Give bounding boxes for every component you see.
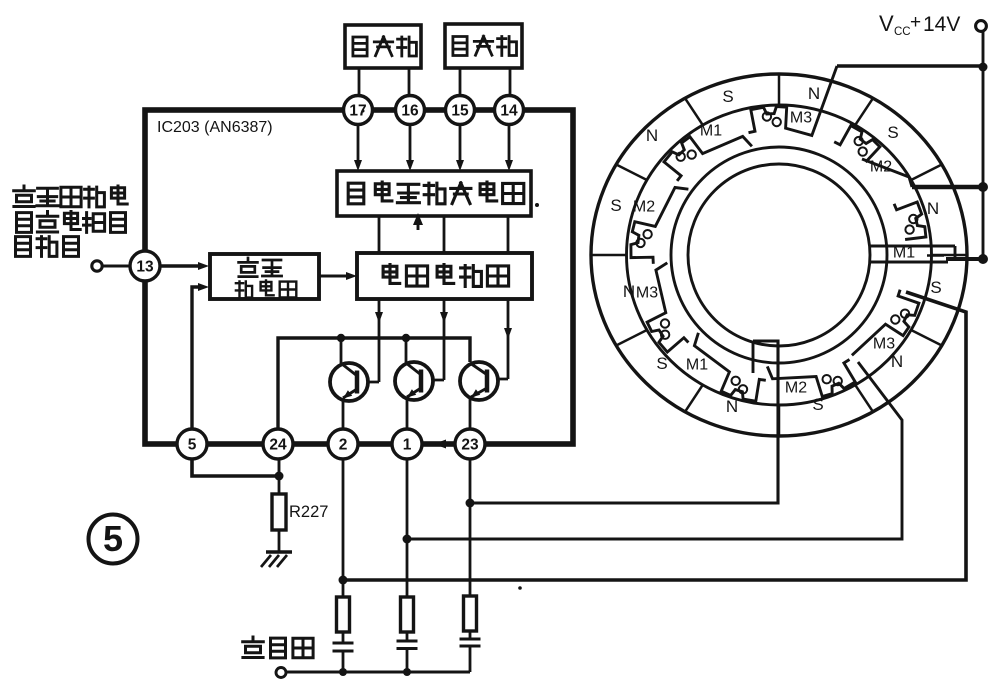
winding M1 xyxy=(739,385,747,393)
junction pin1 rail xyxy=(403,535,412,544)
svg-text:CC: CC xyxy=(894,26,911,38)
svg-text:IC203 (AN6387): IC203 (AN6387) xyxy=(157,119,273,136)
svg-text:S: S xyxy=(930,278,941,297)
junction Q2 collector xyxy=(402,334,410,342)
wire pin5 to R227 node xyxy=(192,459,279,476)
capacitor phase 1 xyxy=(342,632,345,643)
speck xyxy=(362,110,365,113)
resistor phase 3 xyxy=(464,596,477,631)
stator pole M2 at 160 deg xyxy=(631,188,689,264)
arrow on IC bottom edge between pin 1 and 23 xyxy=(434,440,446,449)
svg-text:N: N xyxy=(646,126,658,145)
stator pole M2 at 40 deg xyxy=(834,126,880,163)
wire Q1 emitter to pin 2 xyxy=(342,399,345,429)
wire pin13 to torque controller xyxy=(160,264,199,267)
wire processor to diff-amp 1 xyxy=(378,216,381,253)
rotor magnet boundaries xyxy=(932,254,968,257)
wire terminal to pin13 xyxy=(102,265,131,268)
svg-text:S: S xyxy=(722,87,733,106)
stator pole M3 at 320 deg xyxy=(852,290,919,356)
wire Vcc to M2 coil xyxy=(912,185,983,190)
svg-text:N: N xyxy=(623,282,635,301)
speck xyxy=(518,586,522,590)
drum power terminal xyxy=(276,668,286,678)
wire Q2 emitter to pin 1 xyxy=(406,398,409,429)
svg-text:S: S xyxy=(610,196,621,215)
stator pole M1 at 120 deg xyxy=(664,136,752,181)
stator pole M3 at 200 deg xyxy=(647,263,688,352)
svg-text:M3: M3 xyxy=(873,336,895,353)
wire pin2 column xyxy=(342,459,345,597)
pin 13 xyxy=(130,251,160,281)
winding M1 xyxy=(909,215,917,223)
stator pole M2 at 280 deg xyxy=(767,360,855,397)
capacitor phase 3 xyxy=(469,631,472,640)
stator yoke xyxy=(671,147,887,363)
svg-text:S: S xyxy=(656,354,667,373)
wire Q3 emitter to pin 23 xyxy=(469,398,472,429)
stator pole M3 at 80 deg xyxy=(749,107,814,136)
junction Vcc branch 2 xyxy=(978,182,988,192)
wire pin1 to motor M3 coil xyxy=(407,362,902,539)
resistor phase 2 xyxy=(401,597,414,632)
wire processor to diff-amp 2 xyxy=(443,216,446,253)
svg-text:N: N xyxy=(891,352,903,371)
svg-text:16: 16 xyxy=(401,103,419,120)
block torque controller xyxy=(210,254,319,299)
svg-text:S: S xyxy=(887,123,898,142)
hall sensor block 2 xyxy=(445,24,522,68)
speck xyxy=(535,203,539,207)
transistor Q2 xyxy=(395,362,433,400)
pin 2 xyxy=(328,429,358,459)
motor rotor inner ring xyxy=(627,105,932,405)
svg-text:M2: M2 xyxy=(870,159,892,176)
pin 24 xyxy=(263,429,293,459)
wire torque controller to diff amp xyxy=(319,274,348,277)
wire processor to diff-amp 3 xyxy=(507,216,510,253)
wire pin to position-signal-processor xyxy=(508,125,511,163)
stator pole M1 at 0 deg xyxy=(894,202,926,240)
svg-text:M2: M2 xyxy=(785,380,807,397)
hall sensor block 1 xyxy=(345,25,421,68)
svg-text:5: 5 xyxy=(103,518,123,559)
Vcc terminal xyxy=(976,21,987,32)
svg-text:5: 5 xyxy=(188,437,197,454)
svg-text:24: 24 xyxy=(269,437,287,454)
figure number 5 xyxy=(89,515,138,564)
svg-text:M2: M2 xyxy=(633,199,655,216)
pin 23 xyxy=(455,429,485,459)
svg-text:M3: M3 xyxy=(790,110,812,127)
stator pole M1 at 240 deg xyxy=(694,333,765,401)
bottom pole lead stub xyxy=(752,341,755,373)
wire Vcc to M3 top coil xyxy=(837,64,983,67)
resistor phase 1 xyxy=(337,597,350,632)
svg-text:1: 1 xyxy=(403,437,412,454)
svg-text:N: N xyxy=(808,84,820,103)
svg-text:V: V xyxy=(879,11,894,36)
pin 17 xyxy=(344,96,373,125)
svg-text:N: N xyxy=(726,397,738,416)
wire pin to position-signal-processor xyxy=(459,125,462,163)
wire R227 to ground xyxy=(278,530,281,552)
svg-text:M3: M3 xyxy=(636,285,658,302)
junction pin2 rail xyxy=(339,576,348,585)
winding M3 xyxy=(763,112,771,120)
motor rotor outer ring xyxy=(591,74,967,436)
wire hall2 to pin15 xyxy=(459,68,462,96)
input text drum drive control voltage from servo circuit xyxy=(14,186,35,207)
svg-text:+: + xyxy=(910,12,921,33)
block position signal processor xyxy=(337,171,531,216)
input terminal xyxy=(92,261,102,271)
feedback arrow into processor bottom xyxy=(413,213,423,225)
svg-text:13: 13 xyxy=(136,259,154,276)
winding M2 xyxy=(636,239,644,247)
pin 5 xyxy=(177,429,207,459)
junction Vcc branch 3 xyxy=(978,254,988,264)
wire hall1 to pin16 xyxy=(408,68,411,96)
junction Vcc branch 1 xyxy=(979,63,988,72)
wire pin5 to torque controller xyxy=(192,287,200,429)
winding M1 xyxy=(677,153,685,161)
winding M3 xyxy=(901,310,909,318)
wire pin24 down xyxy=(278,459,281,476)
transistor Q3 xyxy=(460,362,498,400)
winding M2 xyxy=(855,137,863,145)
ground xyxy=(266,550,292,553)
junction node pin24/pin5 xyxy=(275,472,284,481)
wire collector rail to pin 24 xyxy=(278,338,470,429)
wire pin to position-signal-processor xyxy=(409,125,412,163)
wire hall2 to pin14 xyxy=(509,68,512,96)
wire pin23 column xyxy=(469,459,472,596)
junction cap2 xyxy=(403,668,411,676)
pin 16 xyxy=(396,96,425,125)
wire pin to position-signal-processor xyxy=(357,125,360,163)
junction Q1 collector xyxy=(337,334,345,342)
svg-text:15: 15 xyxy=(451,103,469,120)
wire Vcc to M1 coil xyxy=(946,257,983,261)
svg-text:23: 23 xyxy=(461,437,479,454)
wire hall1 to pin17 xyxy=(358,68,361,96)
winding M3 xyxy=(661,331,669,339)
svg-text:M1: M1 xyxy=(686,357,708,374)
Vcc rail down xyxy=(982,31,985,259)
wire diff-amp output 2 to Q2 base xyxy=(443,299,446,380)
IC body IC203 outline xyxy=(145,110,573,444)
junction cap1 xyxy=(339,668,347,676)
svg-text:M1: M1 xyxy=(893,245,915,262)
block differential amplifier xyxy=(357,253,532,299)
pin 14 xyxy=(495,96,524,125)
drum power supply label xyxy=(243,637,264,658)
pin 1 xyxy=(392,429,422,459)
svg-text:14V: 14V xyxy=(923,13,960,36)
svg-text:N: N xyxy=(927,199,939,218)
svg-text:M1: M1 xyxy=(700,123,722,140)
wire pin1 column xyxy=(406,459,409,597)
svg-text:R227: R227 xyxy=(289,503,328,521)
capacitor phase 2 xyxy=(406,632,409,642)
wire diff-amp output 1 to Q1 base xyxy=(378,299,381,382)
svg-text:14: 14 xyxy=(500,103,518,120)
wire pin2 to motor M3 coil outer xyxy=(343,292,966,580)
pin 15 xyxy=(446,96,475,125)
svg-text:2: 2 xyxy=(339,437,348,454)
junction pin23 rail xyxy=(466,499,475,508)
wire diff-amp output 3 to Q3 base xyxy=(507,299,510,379)
transistor Q1 xyxy=(330,363,368,401)
wire pin23 to motor bottom coil xyxy=(470,341,778,503)
winding M2 xyxy=(834,377,842,385)
resistor R227 xyxy=(278,476,281,494)
wire drum power bus xyxy=(286,670,470,673)
stator bore xyxy=(688,164,870,346)
